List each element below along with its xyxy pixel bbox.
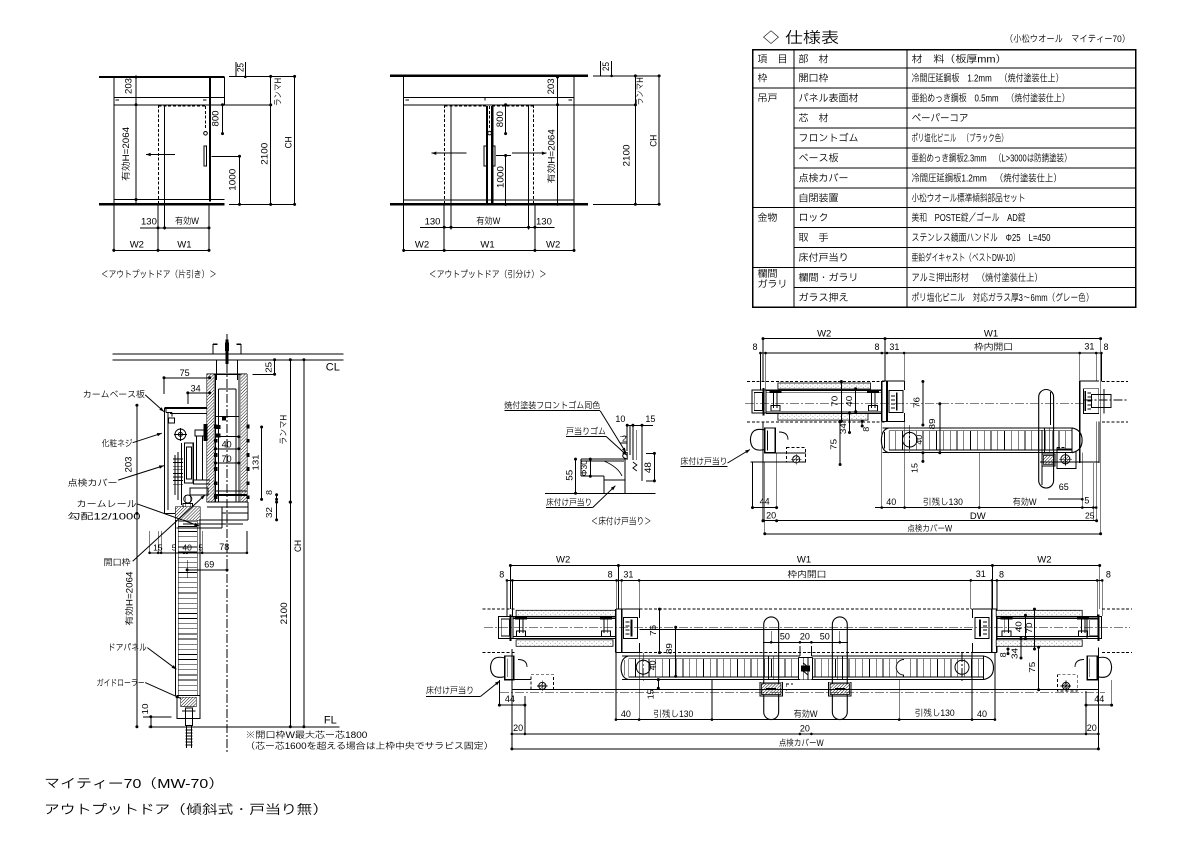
svg-text:W1: W1 (984, 329, 998, 340)
svg-text:美和 POSTE錠／ゴール AD錠: 美和 POSTE錠／ゴール AD錠 (912, 212, 1026, 224)
svg-text:2100: 2100 (279, 602, 289, 624)
plan2 right pocket end cap (1087, 617, 1101, 639)
elevation2 dim 800 (505, 105, 507, 134)
svg-text:ランマH: ランマH (635, 77, 645, 105)
spec table row lines (753, 67, 1136, 69)
svg-text:（小松ウオール マイティー70）: （小松ウオール マイティー70） (1005, 34, 1130, 45)
plan1 handle capsule (1039, 390, 1054, 489)
plan1 dim 76 (922, 382, 924, 426)
plan2 left stop anchor dashed box (531, 675, 554, 690)
svg-text:床付け戸当り: 床付け戸当り (426, 686, 474, 696)
svg-text:70: 70 (222, 454, 232, 464)
elevation2 transom band (404, 96, 574, 98)
svg-text:40: 40 (844, 395, 854, 406)
section fixing screw (184, 495, 192, 503)
elevation2 handles (484, 146, 486, 166)
plan2 right dims 40 70 34 8 75 (1025, 615, 1027, 638)
elevation2 lower extension lines (403, 206, 405, 253)
svg-text:5: 5 (198, 543, 203, 553)
plan1 pocket track lines (766, 389, 882, 391)
svg-text:15: 15 (909, 463, 919, 473)
svg-text:25: 25 (236, 63, 246, 72)
svg-text:8: 8 (999, 570, 1004, 580)
section roller channel part (185, 443, 194, 483)
plan2 upper extension lines (509, 567, 511, 610)
svg-text:78: 78 (219, 542, 229, 552)
svg-text:材 料（板厚mm）: 材 料（板厚mm） (912, 54, 1007, 66)
section dim 32 (276, 502, 278, 520)
plan1 right jamb (1079, 381, 1081, 463)
svg-text:W2: W2 (130, 239, 144, 250)
elevation2 meeting stiles (486, 106, 488, 203)
svg-text:＜アウトプットドア（引分け）＞: ＜アウトプットドア（引分け）＞ (429, 269, 547, 281)
svg-text:25: 25 (601, 62, 611, 71)
svg-text:取 手: 取 手 (799, 232, 829, 244)
section door panel ladder (175, 520, 177, 695)
section track channel inner lines (215, 374, 217, 502)
svg-text:W2: W2 (546, 240, 560, 251)
section frame center line (226, 334, 228, 752)
svg-text:W2: W2 (817, 329, 831, 340)
section track top line (207, 373, 248, 375)
plan2 floor stop right (1087, 656, 1097, 680)
plan2 dim 76 left (659, 609, 661, 653)
stop detail dim 10 15 (627, 424, 653, 426)
svg-text:小松ウオール標準傾斜部品セット: 小松ウオール標準傾斜部品セット (912, 192, 1026, 204)
plan2 dim W2 W1 W2 (510, 565, 1099, 567)
svg-text:床付け戸当り: 床付け戸当り (546, 498, 592, 508)
section dim 2100 (289, 502, 291, 727)
svg-text:34: 34 (1010, 648, 1020, 659)
plan2 dashed marks near plates (786, 683, 793, 685)
plan1 lock body (1057, 449, 1076, 468)
elevation1 lock dashed line and cylinder (205, 106, 207, 130)
svg-text:欄間: 欄間 (758, 268, 778, 280)
svg-text:引残し130: 引残し130 (653, 709, 693, 719)
svg-text:40: 40 (621, 709, 631, 719)
plan2 center line (484, 626, 1130, 628)
section door top rail hatched (176, 507, 200, 520)
plan1 lower extension lines (762, 422, 764, 521)
svg-text:75: 75 (828, 439, 838, 450)
svg-text:点検カバーW: 点検カバーW (907, 524, 952, 534)
svg-text:W2: W2 (415, 240, 429, 251)
elevation2 left door dashed outline (444, 105, 446, 204)
svg-text:40: 40 (182, 543, 192, 553)
section dim 40 in panel (216, 436, 239, 438)
svg-text:20: 20 (1087, 723, 1097, 733)
plan1 door left end cap (881, 428, 889, 453)
svg-text:金物: 金物 (758, 212, 778, 224)
elevation1 slide direction arrow (146, 154, 175, 156)
section hanger bolt (226, 334, 228, 344)
section anchor bolt below floor (186, 725, 188, 748)
section ceiling slab lines CL (113, 353, 344, 355)
elevation2 dim 1000 (505, 156, 507, 205)
plan2 left jamb (615, 609, 617, 652)
svg-text:有効W: 有効W (476, 216, 500, 226)
plan2 dim row 8 31 wakunai 31 8 (507, 579, 1102, 581)
svg-text:冷間圧延鋼板1.2mm （焼付塗装仕上）: 冷間圧延鋼板1.2mm （焼付塗装仕上） (912, 172, 1062, 184)
svg-text:5: 5 (172, 543, 177, 553)
svg-text:項 目: 項 目 (758, 54, 788, 66)
svg-text:部 材: 部 材 (799, 54, 829, 66)
svg-text:70: 70 (1024, 622, 1034, 633)
plan2 left pocket hanger brackets (518, 619, 520, 634)
plan2 left pocket end cap (499, 617, 513, 639)
svg-text:40: 40 (222, 440, 232, 450)
svg-text:W1: W1 (480, 240, 494, 251)
plan1 pocket end cap left (752, 390, 766, 413)
spec table column lines (793, 50, 795, 308)
svg-text:点検カバー: 点検カバー (799, 172, 849, 184)
plan1 dim W2 W1 (763, 338, 1101, 340)
svg-text:吊戸: 吊戸 (758, 94, 778, 105)
section guide roller assembly (177, 695, 200, 718)
svg-text:8: 8 (1106, 570, 1111, 580)
svg-text:ポリ塩化ビニル （ブラック色）: ポリ塩化ビニル （ブラック色） (912, 132, 1008, 144)
plan2 handle capsules (764, 617, 779, 720)
svg-text:50: 50 (820, 632, 830, 642)
svg-text:芯 材: 芯 材 (799, 113, 829, 125)
stop detail dim 55 (575, 459, 577, 493)
elevation2 right door dashed outline (533, 105, 535, 204)
svg-text:34: 34 (838, 423, 848, 434)
svg-text:10: 10 (615, 414, 625, 424)
svg-text:ステンレス鏡面ハンドル Φ25 L=450: ステンレス鏡面ハンドル Φ25 L=450 (912, 232, 1051, 244)
svg-text:枠: 枠 (758, 73, 768, 85)
svg-text:Φ30: Φ30 (579, 460, 589, 476)
svg-text:DW: DW (970, 511, 986, 522)
svg-text:130: 130 (141, 217, 157, 228)
plan1 dim 40 130 yukoW 5 (875, 507, 1096, 509)
svg-text:マイティー70（MW-70）: マイティー70（MW-70） (44, 776, 224, 791)
svg-text:有効H=2064: 有効H=2064 (121, 127, 131, 181)
svg-text:203: 203 (124, 78, 134, 94)
plan2 right door end cap (983, 656, 993, 680)
svg-text:FL: FL (324, 715, 337, 727)
section dim 25 top right (252, 373, 274, 375)
plan1 upper extension lines (762, 340, 764, 382)
stop detail rubber bumps (623, 453, 628, 460)
section dim ranma-H (289, 360, 291, 502)
elevation1 transom band (114, 96, 225, 98)
plan2 dim 50 20 50 (763, 641, 848, 643)
svg-text:89: 89 (664, 643, 674, 654)
svg-text:ポリ塩化ビニル 対応ガラス厚3～6mm（グレー色）: ポリ塩化ビニル 対応ガラス厚3～6mm（グレー色） (912, 292, 1094, 304)
plan1 dim 65 (1048, 498, 1082, 500)
section frame hatched strip left (207, 374, 214, 502)
svg-text:8: 8 (875, 342, 880, 352)
section closer cover (165, 407, 207, 409)
section dim 70 in panel (216, 448, 239, 450)
elevation1 door jamb thick line (209, 77, 211, 202)
elevation1 dim W2 W1 (114, 249, 209, 251)
svg-text:130: 130 (536, 216, 552, 227)
svg-text:ロック: ロック (799, 212, 829, 224)
svg-text:800: 800 (495, 111, 505, 127)
svg-text:8: 8 (998, 652, 1008, 657)
svg-text:CL: CL (326, 362, 340, 374)
svg-text:1000: 1000 (227, 169, 237, 191)
elevation2 right slide arrow (512, 152, 547, 154)
plan2 dim tenken cover W (512, 748, 1099, 750)
elevation1 left wall line (113, 77, 115, 204)
section cover small parts (195, 430, 204, 436)
svg-text:8: 8 (1104, 342, 1109, 352)
svg-text:化粧ネジ: 化粧ネジ (102, 439, 133, 449)
svg-text:W2: W2 (1037, 555, 1051, 566)
svg-text:32: 32 (264, 507, 274, 518)
plan1 pocket plaster strips (778, 383, 871, 389)
plan2 right stop catch circle (955, 660, 969, 674)
plan2 left door end cap (621, 656, 629, 680)
elevation1 floor lines (114, 199, 225, 201)
section dim 8 (276, 495, 278, 500)
svg-text:8: 8 (264, 490, 274, 495)
svg-text:フロントゴム: フロントゴム (799, 132, 859, 144)
svg-text:40: 40 (1013, 621, 1023, 632)
plan2 lower extension lines (498, 680, 500, 705)
spec table outer frame (753, 50, 1136, 308)
svg-text:50: 50 (780, 632, 790, 642)
plan1 panel center line (745, 403, 1084, 405)
elevation2 floor lines (404, 199, 574, 201)
svg-text:＜アウトプットドア（片引き）＞: ＜アウトプットドア（片引き）＞ (101, 269, 217, 281)
svg-text:8: 8 (608, 570, 613, 580)
svg-text:15: 15 (645, 689, 655, 699)
plan2 meeting stiles (798, 657, 800, 679)
svg-text:130: 130 (425, 216, 441, 227)
plan1 dim 70 40 in jamb area (840, 382, 842, 422)
plan2 dim 15 left (657, 680, 659, 689)
elevation2 left slide arrow (432, 152, 467, 154)
svg-text:203: 203 (124, 457, 134, 473)
plan1 dim 44 and 20 left (753, 507, 777, 509)
svg-text:パネル表面材: パネル表面材 (799, 93, 859, 105)
elevation1 lower extension lines (113, 206, 115, 253)
elevation2 handle center line (496, 155, 511, 157)
svg-text:800: 800 (211, 111, 221, 127)
stop detail door section lines (626, 425, 628, 451)
svg-text:8: 8 (499, 570, 504, 580)
plan2 dim 89 left (675, 627, 677, 676)
svg-text:2100: 2100 (260, 143, 270, 165)
svg-text:31: 31 (976, 569, 986, 579)
svg-text:70: 70 (830, 395, 840, 406)
svg-text:44: 44 (1094, 694, 1104, 704)
elevation2 lock dashed line and cylinder (489, 106, 491, 130)
svg-text:◇ 仕様表: ◇ 仕様表 (762, 29, 839, 47)
svg-text:亜鉛ダイキャスト（ベストDW-10）: 亜鉛ダイキャスト（ベストDW-10） (912, 252, 1020, 264)
svg-text:亜鉛めっき鋼板2.3mm （L>3000は防錆塗装）: 亜鉛めっき鋼板2.3mm （L>3000は防錆塗装） (912, 152, 1072, 164)
svg-text:ガイドローラー: ガイドローラー (97, 678, 145, 688)
svg-text:131: 131 (250, 454, 260, 470)
section dim row 15 5 40 5 78 (150, 552, 247, 554)
section panel bottom rails (216, 490, 247, 492)
elevation2 dim 2100 and ranma-H chained (634, 76, 636, 204)
plan2 right door handle recess arc (896, 660, 904, 676)
svg-text:20: 20 (800, 632, 810, 642)
elevation1 dim CH (294, 76, 296, 204)
section fastener marks on strips (214, 425, 217, 428)
svg-text:20: 20 (766, 511, 776, 521)
svg-text:25: 25 (1085, 510, 1095, 520)
elevation1 transom extension line (206, 104, 271, 106)
plan2 dim 44 left (499, 704, 525, 706)
svg-text:CH: CH (284, 136, 294, 148)
svg-text:20: 20 (800, 723, 810, 733)
plan2 handle fixing plates (760, 682, 782, 696)
elevation1 dim 1000 (239, 156, 241, 204)
plan1 stop anchor dashed box (787, 448, 806, 462)
plan1 door right end cap (1072, 428, 1082, 453)
section dim 10 (143, 716, 171, 718)
svg-text:※開口枠W最大芯ー芯1800: ※開口枠W最大芯ー芯1800 (245, 730, 367, 740)
svg-text:2: 2 (622, 434, 627, 444)
svg-text:引残し130: 引残し130 (915, 708, 955, 718)
elevation1 dim 2100 and ranma-H chained (270, 76, 272, 204)
svg-text:25: 25 (263, 361, 273, 372)
elevation single door: ceiling line (99, 76, 225, 78)
svg-text:アルミ押出形材 （焼付塗装仕上）: アルミ押出形材 （焼付塗装仕上） (912, 272, 1043, 284)
plan2 left door ladder (622, 655, 800, 657)
svg-text:2100: 2100 (621, 145, 631, 167)
plan2 right jamb (996, 609, 998, 652)
svg-text:有効W: 有効W (1013, 497, 1037, 507)
elevation1 door panel dashed outline (158, 105, 160, 204)
stop detail stop body (581, 458, 627, 460)
svg-text:20: 20 (513, 723, 523, 733)
svg-text:CH: CH (293, 540, 303, 552)
svg-text:W1: W1 (797, 555, 811, 566)
stop detail floor line (545, 492, 655, 494)
elevation1 handle (204, 146, 206, 166)
elevation2 dim 203 / yuko-H chained (557, 77, 559, 204)
svg-text:自閉装置: 自閉装置 (799, 192, 839, 204)
svg-text:枠内開口: 枠内開口 (974, 342, 1013, 352)
svg-text:点検カバー: 点検カバー (68, 478, 118, 488)
plan1 stop catch circle on door (903, 432, 918, 447)
svg-text:76: 76 (648, 625, 658, 636)
svg-text:有効H=2064: 有効H=2064 (125, 572, 135, 626)
elevation1 opening edge line (164, 105, 166, 204)
svg-text:有効W: 有効W (794, 709, 818, 719)
elevation2 dim 130 / yuko-W / 130 (420, 226, 554, 228)
svg-text:枠内開口: 枠内開口 (787, 569, 826, 579)
svg-text:40: 40 (649, 660, 658, 671)
section dim CH (303, 360, 305, 727)
svg-text:CH: CH (649, 135, 659, 147)
svg-text:76: 76 (911, 397, 921, 408)
svg-text:W1: W1 (177, 239, 191, 250)
elevation1 frame line with dims 203 / yuko-H (135, 77, 137, 204)
section hanger roller blobs (204, 425, 207, 441)
svg-text:開口枠: 開口枠 (104, 557, 131, 567)
svg-text:有効W: 有効W (175, 216, 199, 226)
plan1 dim DW 25 (763, 520, 1097, 522)
svg-text:40: 40 (915, 434, 924, 445)
elevation1 dim 130 / yuko-W (140, 227, 209, 229)
svg-text:8: 8 (753, 342, 758, 352)
section left dim line yuko-H (136, 405, 138, 727)
elevation2 dim CH (658, 76, 660, 204)
plan2 cover center line (500, 691, 1105, 693)
svg-text:ドアパネル: ドアパネル (108, 643, 147, 653)
svg-text:点検カバーW: 点検カバーW (779, 738, 824, 748)
section transom panel in channel (218, 389, 220, 502)
section dim 34 (188, 392, 210, 394)
plan1 floor stop left (765, 428, 776, 453)
svg-text:5: 5 (1084, 496, 1089, 506)
svg-text:203: 203 (546, 78, 556, 94)
svg-text:55: 55 (564, 470, 574, 481)
svg-text:34: 34 (191, 384, 201, 394)
section frame hatched strip right (241, 374, 247, 502)
svg-text:ベース板: ベース板 (799, 152, 839, 164)
svg-text:戸当りゴム: 戸当りゴム (566, 426, 606, 436)
svg-text:8: 8 (861, 427, 871, 432)
section dim 69 (187, 569, 227, 571)
plan1 dim tenken cover W (765, 533, 1101, 535)
plan2 right pocket hanger brackets (1004, 619, 1006, 634)
svg-text:44: 44 (760, 497, 770, 507)
svg-text:1000: 1000 (496, 166, 506, 188)
plan2 floor stop left (505, 656, 514, 680)
plan2 left pocket track lines (513, 616, 616, 618)
stop detail dim 48 (653, 453, 655, 481)
svg-text:69: 69 (204, 560, 214, 570)
plan1 handle fixing plate (1042, 454, 1055, 466)
plan2 right pocket plaster strips (996, 610, 1082, 616)
svg-text:89: 89 (927, 418, 937, 429)
stop detail dim phi30 (589, 459, 591, 476)
svg-text:40: 40 (886, 497, 896, 507)
svg-text:焼付塗装フロントゴム同色: 焼付塗装フロントゴム同色 (504, 401, 600, 411)
elevation2 dim W2 W1 W2 (404, 249, 574, 251)
plan1 cover bottom edge right (1040, 461, 1099, 463)
plan2 wall hidden lines (483, 608, 517, 610)
plan2 left pocket plaster strips (516, 610, 616, 616)
elevation1 dim 25 break ticks (235, 62, 237, 77)
svg-text:ランマH: ランマH (273, 78, 283, 106)
svg-text:床付戸当り: 床付戸当り (799, 252, 849, 264)
plan2 right door ladder (811, 655, 983, 657)
svg-text:15: 15 (645, 414, 655, 424)
elevation2 right wall line (573, 76, 575, 204)
svg-text:31: 31 (1084, 342, 1094, 352)
svg-text:31: 31 (623, 569, 633, 579)
svg-text:75: 75 (1027, 661, 1037, 672)
elevation2 dim 25 break ticks (599, 61, 601, 76)
section floor line FL (149, 726, 340, 728)
section cam base plate (170, 413, 207, 415)
section cam circle (175, 429, 186, 440)
plan1 dim 15 (922, 453, 924, 462)
svg-text:冷間圧延鋼板 1.2mm （焼付塗装仕上）: 冷間圧延鋼板 1.2mm （焼付塗装仕上） (912, 73, 1064, 85)
section adjuster comb teeth (173, 458, 183, 460)
plan1 dim 34 8 75 below (849, 413, 851, 432)
svg-text:開口枠: 開口枠 (799, 73, 829, 85)
plan2 dim 20 row (512, 733, 1099, 735)
plan1 wall hidden lines lower (747, 421, 885, 423)
svg-text:10: 10 (140, 703, 150, 714)
plan1 hanger brackets in pocket (773, 392, 775, 408)
plan2 right stop anchor dashed box (1057, 675, 1077, 691)
section track hanger plates (215, 360, 217, 380)
svg-text:31: 31 (889, 342, 899, 352)
plan2 dim 44 right (1086, 704, 1112, 706)
